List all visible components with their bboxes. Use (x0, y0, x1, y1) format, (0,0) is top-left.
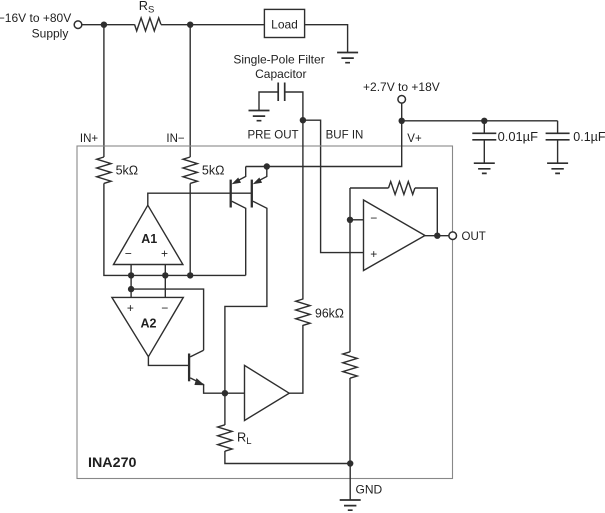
label RS (139, 0, 155, 16)
svg-text:Single-Pole Filter: Single-Pole Filter (233, 53, 324, 67)
capacitor filter (278, 83, 285, 102)
Q2 base bar (251, 180, 253, 208)
svg-text:IN+: IN+ (80, 133, 99, 145)
wire cap2 bottom (557, 140, 559, 163)
node preout cap (300, 117, 306, 123)
wire A1 inv input (130, 265, 132, 298)
svg-text:A2: A2 (141, 316, 157, 330)
load box (264, 9, 304, 37)
A2 plus sign (127, 301, 134, 315)
V+ supply label (363, 80, 440, 94)
wire V+ terminal down (401, 103, 403, 121)
label GND (356, 482, 383, 496)
A2 minus sign (161, 301, 168, 315)
wire Q2 emitter (253, 167, 267, 185)
wire A4 inv input (350, 219, 364, 221)
node buffer input (222, 390, 228, 396)
resistor RS (135, 18, 161, 31)
resistor 5k plus (97, 157, 111, 183)
svg-text:+: + (370, 247, 377, 261)
label IN- (166, 133, 185, 145)
wire cap1 bottom (483, 140, 485, 163)
wire preout down (302, 120, 304, 299)
svg-text:A1: A1 (141, 232, 157, 246)
svg-text:5kΩ: 5kΩ (116, 163, 139, 177)
wire A4 output (425, 235, 449, 237)
ground cap1 (474, 163, 495, 173)
OUT terminal (449, 232, 457, 240)
op-amp A4 (364, 200, 426, 271)
V+ terminal (398, 96, 406, 104)
A1 minus sign (125, 247, 132, 261)
ground cap2 (547, 163, 568, 173)
svg-text:INA270: INA270 (88, 454, 137, 470)
svg-text:−: − (125, 247, 132, 261)
op-amp A2 (112, 297, 183, 356)
supply label (0, 11, 71, 41)
wire RL top (224, 393, 226, 425)
ground GND pin (340, 500, 361, 510)
label 0.01uF (498, 130, 539, 144)
op-amp A1 (114, 205, 183, 264)
label V+ (407, 133, 422, 145)
svg-text:−16V to +80V: −16V to +80V (0, 11, 71, 25)
node Q2 emitter tap (264, 163, 270, 169)
wire cap1 top (483, 121, 485, 134)
svg-text:Capacitor: Capacitor (255, 67, 306, 81)
wire feedback left (350, 187, 389, 189)
A1 plus sign (161, 247, 168, 261)
svg-text:V+: V+ (407, 133, 422, 145)
label 96k (315, 307, 344, 321)
wire Q2 collector (225, 201, 267, 393)
label PRE OUT (247, 130, 298, 142)
wire Rs to Load (161, 24, 265, 26)
wire 96k to buffer out (289, 325, 303, 393)
svg-text:+: + (161, 247, 168, 261)
svg-text:PRE OUT: PRE OUT (247, 130, 298, 142)
wire preout-bufin jumper (303, 120, 364, 252)
ground load (337, 53, 358, 63)
wire cap right to preout (285, 92, 303, 120)
A4 minus sign (370, 211, 377, 225)
svg-text:GND: GND (356, 482, 383, 496)
node summing 1 (128, 272, 134, 278)
node V+ (399, 118, 405, 124)
svg-text:96kΩ: 96kΩ (315, 307, 344, 321)
svg-text:0.01µF: 0.01µF (498, 130, 539, 144)
wire 5k+ to summing (104, 183, 246, 275)
svg-text:Supply: Supply (32, 27, 69, 41)
node opamp inv (347, 217, 353, 223)
wire gnd pin (349, 464, 351, 501)
svg-text:RL: RL (237, 430, 252, 448)
label A1 (141, 232, 157, 246)
label Load (271, 17, 298, 31)
wire V+ rail (246, 121, 402, 167)
capacitor 0.1uF (546, 133, 570, 140)
node gnd junction (347, 460, 353, 466)
label A2 (141, 316, 157, 330)
svg-text:−: − (161, 301, 168, 315)
wire feedback right (415, 188, 437, 236)
wire divider to gnd node (349, 378, 351, 464)
resistor 5k minus (183, 157, 197, 183)
svg-text:+: + (127, 301, 134, 315)
resistor 96k (296, 299, 310, 325)
svg-text:BUF IN: BUF IN (326, 130, 364, 142)
wire RL bottom (225, 451, 350, 464)
label 0.1uF (573, 130, 605, 144)
wire buffer input (225, 392, 245, 394)
svg-text:OUT: OUT (462, 231, 486, 243)
svg-text:+2.7V to +18V: +2.7V to +18V (363, 80, 440, 94)
node summing 2 (162, 272, 168, 278)
box INA270 (77, 146, 453, 479)
wire Q3 collector (190, 350, 203, 357)
node summing 3 (187, 272, 193, 278)
wire cap2 top (557, 121, 559, 134)
label BUF IN (326, 130, 364, 142)
node A2 feedback (128, 286, 134, 292)
resistor divider (343, 352, 357, 378)
wire Load to ground (305, 25, 348, 53)
wire Q3 emitter (190, 378, 225, 393)
label 5k plus (116, 163, 139, 177)
svg-text:0.1µF: 0.1µF (573, 130, 605, 144)
label 5k minus (202, 163, 225, 177)
wire IN+ down (103, 25, 105, 157)
filter cap label (233, 53, 324, 81)
wire bypass rail (402, 120, 558, 122)
label RL (237, 430, 252, 448)
wire A2 feedback (131, 289, 204, 350)
wire Q1 emitter (232, 167, 246, 185)
buffer amp (245, 365, 290, 420)
node IN- tap (187, 22, 193, 28)
svg-text:RS: RS (139, 0, 155, 16)
resistor RL (218, 425, 232, 451)
ground filter cap (249, 111, 270, 121)
label IN+ (80, 133, 99, 145)
wire 5k- to summing (189, 183, 191, 275)
A4 plus sign (370, 247, 377, 261)
wire supply to Rs (82, 24, 135, 26)
wire Q1 collector (232, 201, 246, 275)
svg-text:−: − (370, 211, 377, 225)
wire fb node down (349, 188, 351, 352)
wire A1 noninv input (164, 265, 166, 298)
wire cap left to ground (259, 92, 278, 111)
svg-text:Load: Load (271, 17, 298, 31)
node IN+ tap (101, 22, 107, 28)
label OUT (462, 231, 486, 243)
wire A2 output (148, 357, 188, 366)
supply terminal (74, 21, 82, 29)
Q1 base bar (230, 180, 232, 208)
Q3 base bar (188, 354, 190, 382)
wire A1 output (148, 193, 252, 205)
wire IN- down (189, 25, 191, 157)
svg-text:IN−: IN− (166, 133, 185, 145)
resistor feedback (389, 182, 415, 195)
label INA270 (88, 454, 137, 470)
capacitor 0.01uF (472, 133, 496, 140)
node cap1 (481, 118, 487, 124)
node output (434, 233, 440, 239)
svg-text:5kΩ: 5kΩ (202, 163, 225, 177)
